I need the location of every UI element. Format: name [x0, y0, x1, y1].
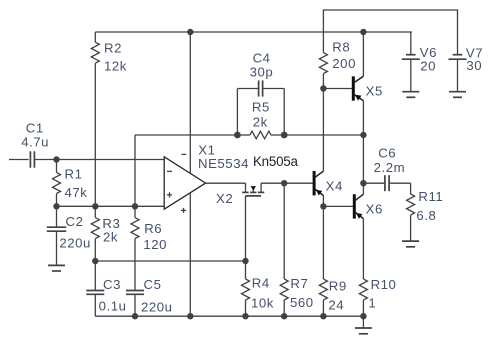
resistor R8 — [319, 39, 356, 88]
junction R8 bottom — [320, 85, 326, 91]
svg-text:10k: 10k — [251, 295, 274, 310]
junction op-amp V+ — [187, 29, 193, 35]
svg-text:X2: X2 — [216, 191, 233, 206]
wire op-amp V- lead — [189, 193, 191, 316]
node A junction — [53, 156, 59, 162]
svg-text:30: 30 — [466, 58, 482, 73]
svg-text:12k: 12k — [104, 58, 127, 73]
wire feedback row to R5 — [135, 134, 237, 136]
svg-text:120: 120 — [143, 237, 167, 252]
junction R1 bottom — [53, 203, 59, 209]
capacitor C1 — [21, 120, 49, 167]
wire op-amp output row — [206, 182, 246, 184]
svg-text:C1: C1 — [26, 120, 44, 135]
voltage source V7 — [449, 45, 484, 91]
wire X2 source to X4 base — [261, 182, 313, 184]
junction R4 top — [242, 258, 248, 264]
resistor R9 — [319, 206, 346, 316]
svg-text:R8: R8 — [332, 39, 350, 54]
svg-text:2.2m: 2.2m — [374, 160, 406, 175]
wire node A to op-amp inverting input — [57, 159, 165, 161]
capacitor C4 — [237, 51, 284, 97]
svg-text:24: 24 — [328, 297, 344, 312]
transistor X6 — [353, 183, 383, 279]
resistor R10 — [359, 277, 396, 316]
wire bottom rail — [95, 315, 363, 317]
svg-text:X4: X4 — [326, 178, 343, 193]
svg-text:R9: R9 — [329, 279, 347, 294]
resistor R3 — [91, 206, 120, 261]
ground below C2 — [48, 265, 65, 271]
junction R5 left — [234, 132, 241, 139]
junction R9 bottom — [320, 313, 326, 319]
resistor R4 — [242, 261, 274, 316]
mosfet X2 — [216, 154, 298, 206]
wire feedback from R6 top up to R5 row — [134, 135, 136, 206]
svg-text:C6: C6 — [378, 146, 396, 161]
svg-text:C5: C5 — [144, 277, 162, 292]
junction R4 bottom — [242, 313, 248, 319]
junction R3 bottom — [92, 258, 98, 264]
junction X6 collector C6 — [360, 180, 366, 186]
junction R7 bottom — [281, 313, 287, 319]
svg-text:X6: X6 — [366, 201, 383, 216]
svg-text:R2: R2 — [104, 41, 122, 56]
ground below V6 — [402, 92, 419, 98]
svg-text:R11: R11 — [418, 189, 443, 204]
resistor R1 — [53, 160, 88, 207]
svg-text:R4: R4 — [252, 275, 270, 290]
svg-text:30p: 30p — [250, 64, 274, 79]
svg-text:4.7u: 4.7u — [21, 135, 49, 150]
svg-text:220u: 220u — [59, 236, 91, 251]
resistor R5 — [237, 100, 284, 139]
junction feedback at X5 emitter — [360, 132, 366, 138]
svg-text:560: 560 — [290, 295, 314, 310]
svg-text:X5: X5 — [366, 83, 383, 98]
wire R5 right to X5 emitter column — [284, 134, 363, 136]
wire C4 left leg down — [236, 89, 238, 136]
wire X4 emitter to X6 base — [323, 205, 353, 207]
resistor R6 — [131, 206, 167, 290]
svg-text:R6: R6 — [144, 221, 162, 236]
wire middle ground row — [95, 260, 245, 262]
junction R3 top — [92, 203, 98, 209]
junction X2 source node — [281, 180, 287, 186]
resistor R11 — [407, 183, 444, 241]
svg-text:200: 200 — [332, 56, 356, 71]
svg-text:C2: C2 — [66, 214, 84, 229]
svg-text:NE5534: NE5534 — [198, 156, 249, 171]
svg-text:6.8: 6.8 — [416, 208, 436, 223]
ground below V7 — [449, 92, 466, 98]
svg-text:220u: 220u — [141, 300, 173, 315]
svg-text:2k: 2k — [103, 230, 118, 245]
ground bottom rail — [355, 316, 372, 334]
svg-text:R10: R10 — [371, 277, 397, 292]
svg-text:2k: 2k — [253, 114, 268, 129]
wire noninverting row — [57, 205, 165, 207]
svg-text:C3: C3 — [103, 277, 121, 292]
wire X5 emitter column down — [362, 135, 364, 183]
capacitor C5 — [126, 277, 173, 316]
junction R10 bottom — [360, 313, 366, 319]
capacitor C3 — [86, 261, 126, 316]
svg-text:Kn505a: Kn505a — [253, 154, 298, 169]
wire top rail V+ — [95, 31, 412, 33]
wire R8 junction down to X4 collector — [322, 89, 324, 172]
capacitor C2 — [47, 206, 91, 265]
junction C5 bottom — [132, 313, 138, 319]
junction R5 right — [281, 132, 288, 139]
svg-text:R7: R7 — [290, 276, 308, 291]
ground below R11 — [402, 241, 419, 247]
capacitor C6 — [363, 146, 410, 192]
junction X5 collector top — [360, 29, 366, 35]
wire X2 gate down to R4 — [245, 196, 247, 261]
resistor R2 — [91, 32, 127, 206]
wire input stub — [9, 159, 29, 161]
resistor R7 — [280, 183, 313, 316]
op-amp X1 — [164, 142, 249, 213]
voltage source V6 — [402, 32, 437, 92]
svg-text:20: 20 — [420, 59, 436, 74]
svg-text:0.1u: 0.1u — [99, 299, 127, 314]
wire C4 right leg down — [283, 89, 285, 136]
transistor X5 — [323, 32, 382, 135]
svg-text:R5: R5 — [252, 100, 270, 115]
junction op-amp Vminus bottom — [187, 313, 193, 319]
svg-text:1: 1 — [368, 295, 376, 310]
wire op-amp V+ lead — [189, 32, 191, 173]
svg-text:47k: 47k — [65, 185, 88, 200]
wire top rail 2 — [323, 10, 457, 55]
junction R6 top — [132, 203, 138, 209]
wire C1 to node A — [34, 159, 56, 161]
transistor X4 — [313, 171, 343, 206]
junction X4 emitter — [320, 203, 326, 209]
svg-text:R1: R1 — [65, 167, 83, 182]
